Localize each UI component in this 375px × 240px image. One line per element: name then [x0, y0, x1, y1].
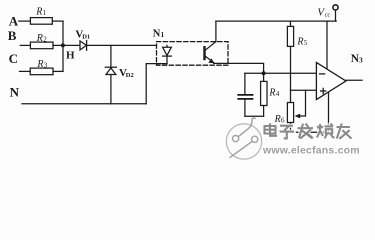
svg-text:N: N	[10, 84, 20, 99]
phototransistor of N1	[205, 42, 216, 64]
node H label	[66, 49, 75, 61]
svg-text:cc: cc	[325, 12, 331, 19]
wire op-amp V+ pin	[326, 21, 328, 69]
label N3	[351, 53, 363, 65]
label VD2	[119, 67, 134, 79]
node C label	[9, 51, 18, 66]
node junction dot (emitter / C / R4 / inverting input)	[262, 71, 266, 75]
svg-text:3: 3	[359, 55, 363, 64]
capacitor C	[238, 95, 252, 99]
svg-text:R: R	[268, 87, 275, 98]
op-amp minus sign	[320, 73, 325, 75]
svg-text:C: C	[9, 51, 18, 66]
svg-text:4: 4	[276, 90, 280, 98]
wire H to VD1	[63, 44, 80, 46]
LED of optocoupler N1	[163, 45, 172, 63]
capacitor C bottom lead	[244, 100, 246, 117]
svg-text:A: A	[9, 14, 19, 29]
diode VD2 (cathode bar up, pointing up)	[105, 67, 116, 74]
label VD1	[75, 29, 90, 41]
svg-text:R: R	[36, 59, 43, 70]
resistor R4	[261, 73, 267, 116]
resistor R2	[30, 42, 53, 49]
label R1	[35, 7, 46, 18]
wire noninverting input	[291, 89, 317, 91]
wire bottom rail	[291, 131, 329, 133]
node A label	[9, 14, 19, 29]
svg-text:B: B	[8, 28, 17, 43]
watermark logo circle (elecfans)	[226, 118, 261, 159]
resistor R6 (preset)	[287, 90, 293, 132]
optocoupler N1 dashed package	[157, 42, 229, 66]
op-amp N3	[316, 62, 346, 99]
wire VD1 to optocoupler	[87, 44, 157, 46]
svg-text:D1: D1	[82, 33, 90, 40]
watermark url www.elecfans.com	[262, 144, 360, 156]
svg-text:R: R	[296, 36, 303, 47]
wire LED cathode return to N rail	[146, 64, 167, 104]
wire op-amp output	[346, 79, 362, 81]
node B label	[8, 28, 17, 43]
label N1	[153, 28, 165, 39]
watermark text 电子发烧友 (pseudo-glyph strokes)	[265, 123, 352, 139]
wire N rail	[22, 103, 146, 105]
svg-text:R: R	[274, 114, 281, 125]
capacitor C top lead	[244, 73, 246, 94]
svg-text:N: N	[153, 28, 161, 39]
wire B input stub	[20, 44, 30, 46]
svg-text:6: 6	[281, 117, 285, 125]
svg-text:H: H	[66, 49, 75, 61]
svg-text:www.elecfans.com: www.elecfans.com	[262, 144, 360, 156]
svg-text:2: 2	[43, 36, 47, 44]
op-amp plus sign	[321, 88, 326, 93]
wire op-amp V- pin	[328, 92, 330, 132]
svg-text:3: 3	[44, 62, 48, 70]
wire emitter run	[214, 63, 264, 73]
diode VD1	[80, 41, 87, 51]
wire R3 right lead	[53, 70, 63, 72]
wire inverting input	[245, 72, 317, 74]
label R5	[296, 36, 307, 47]
wire R2 right lead	[53, 44, 63, 46]
svg-text:5: 5	[304, 39, 308, 47]
R6 wiper arrowhead	[295, 114, 301, 119]
label R2	[36, 33, 47, 44]
resistor R3	[30, 68, 53, 75]
svg-text:D2: D2	[126, 72, 134, 79]
wire R1 right lead	[52, 20, 63, 22]
wire A input stub	[19, 20, 31, 22]
svg-text:R: R	[36, 33, 43, 44]
wire R6 wiper arm	[297, 90, 306, 116]
label Vcc	[317, 6, 330, 18]
node N label	[10, 84, 20, 99]
svg-text:1: 1	[161, 31, 165, 39]
resistor R5	[287, 21, 293, 90]
label R4	[268, 87, 279, 98]
Vcc terminal stem	[335, 10, 337, 21]
label R6	[274, 114, 285, 125]
node H junction dot	[61, 43, 65, 47]
wire summing bus vertical R1/R2/R3 join	[62, 21, 64, 71]
label R3	[36, 59, 47, 70]
svg-text:1: 1	[43, 9, 47, 17]
svg-text:R: R	[35, 7, 42, 18]
wire C/R4 bottom link	[245, 115, 264, 117]
wire C input stub	[20, 70, 31, 72]
wire VD2 branch vertical	[110, 45, 112, 103]
Vcc terminal circle	[333, 5, 338, 10]
wire collector to top rail	[215, 21, 217, 41]
wire top rail	[216, 20, 336, 22]
resistor R1	[30, 18, 52, 25]
